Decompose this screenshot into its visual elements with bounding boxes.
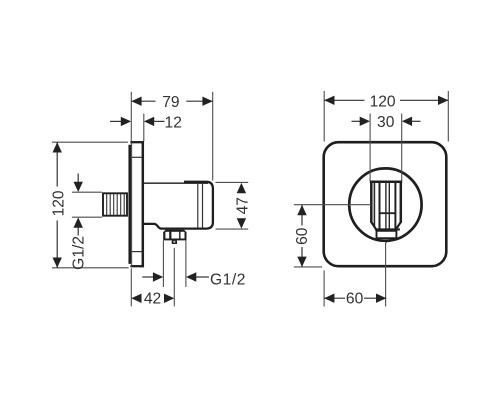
dimension 12 arrows xyxy=(110,117,165,126)
dimension 120 line and arrows xyxy=(53,142,62,268)
dimension 60 bottom extension line left xyxy=(323,271,325,307)
dimension G1/2 left arrows xyxy=(74,174,83,236)
dimension 12 label xyxy=(165,114,182,131)
dimension 47 extension line top xyxy=(216,181,249,183)
svg-text:79: 79 xyxy=(162,94,179,111)
shower holder front view xyxy=(370,182,402,230)
outlet extension line left xyxy=(162,241,164,288)
dimension 42 arrows xyxy=(131,294,174,303)
rosette circle front view xyxy=(349,168,421,240)
dimension 30 extension line right xyxy=(401,114,403,182)
dimension 60 left extension line bottom xyxy=(294,266,322,268)
dimension 120 label (rotated) xyxy=(50,190,67,216)
hose connection nut (side view) xyxy=(163,230,186,241)
dimension 120 front extension line right xyxy=(447,91,449,142)
dimension 60 left label (rotated) xyxy=(294,227,311,245)
outlet centre line xyxy=(173,248,175,306)
dimension G1/2 outlet label xyxy=(210,272,246,289)
dimension G1/2 outlet arrows xyxy=(142,272,209,281)
dimension 42 label xyxy=(144,291,161,308)
dimension 120 extension line top xyxy=(52,141,128,143)
threaded inlet nipple side view xyxy=(103,193,127,215)
escutcheon corner tangent line top xyxy=(132,156,142,158)
dimension G1/2 left label (rotated) xyxy=(71,236,88,270)
svg-text:G1/2: G1/2 xyxy=(71,236,88,270)
dimension 120 front line and arrows xyxy=(324,96,448,105)
dimension 60 left extension line top xyxy=(294,204,371,206)
svg-text:G1/2: G1/2 xyxy=(210,272,246,289)
centre line below front view xyxy=(385,243,387,307)
dimension 47 extension line bottom xyxy=(216,228,249,230)
svg-text:120: 120 xyxy=(50,190,67,216)
outlet tip marker front view xyxy=(383,240,388,244)
dimension 79 line and arrows xyxy=(131,97,212,106)
dimension 79 extension line right xyxy=(212,92,214,181)
svg-text:47: 47 xyxy=(234,197,251,214)
dimension 42 extension line left xyxy=(130,268,132,306)
dimension 30 arrows xyxy=(352,117,421,126)
dimension 60 left line and arrows xyxy=(297,205,306,267)
dimension 60 bottom line and arrows xyxy=(324,294,386,303)
holder inner line 2 (side view) xyxy=(202,184,204,228)
escutcheon plate body (side view) xyxy=(130,141,144,267)
dimension G1/2 left extension line top xyxy=(72,191,102,193)
dimension 120 front extension line left xyxy=(323,91,325,142)
dimension 79 label xyxy=(162,94,179,111)
outlet extension line right xyxy=(185,241,187,288)
svg-text:120: 120 xyxy=(370,93,396,110)
dimension 60 bottom label xyxy=(346,291,364,308)
escutcheon plate rim (side view) xyxy=(128,145,131,264)
svg-text:42: 42 xyxy=(144,291,161,308)
escutcheon plate front view (rounded square) xyxy=(324,142,447,266)
holder outlet stub front view xyxy=(377,231,397,238)
svg-text:30: 30 xyxy=(377,114,395,131)
dimension 120 front label xyxy=(370,93,396,110)
holder body outline (side view) xyxy=(144,182,213,229)
svg-text:60: 60 xyxy=(294,227,311,245)
dimension G1/2 left extension line bottom xyxy=(72,216,102,218)
svg-text:12: 12 xyxy=(165,114,182,131)
dimension 79 extension line left xyxy=(130,92,132,142)
holder inner line 1 (side view) xyxy=(197,184,199,228)
dimension 47 arrows xyxy=(237,183,246,229)
dimension 30 extension line left xyxy=(369,114,371,182)
dimension 47 label (rotated) xyxy=(234,197,251,214)
dimension 30 label xyxy=(377,114,395,131)
escutcheon corner tangent line bottom xyxy=(132,251,142,253)
hose outlet stub (side view) xyxy=(172,240,177,244)
dimension 12 extension line xyxy=(143,114,145,142)
dimension 120 extension line bottom xyxy=(52,267,129,269)
svg-text:60: 60 xyxy=(346,291,364,308)
